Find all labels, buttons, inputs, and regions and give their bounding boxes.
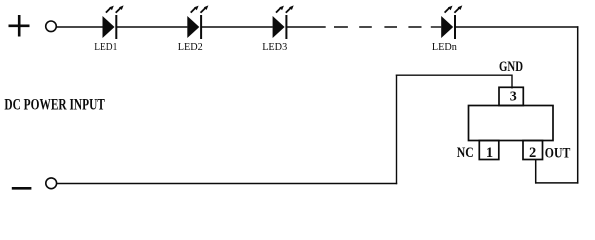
svg-text:NC: NC (457, 145, 474, 161)
wire: + terminal to LED1 anode (56, 26, 102, 28)
wire: LED3 cathode, solid segment before dashed break (287, 26, 326, 28)
plus symbol (+ of DC power input) (9, 15, 30, 37)
LED LEDn (441, 5, 462, 39)
regulator U1 body (469, 106, 554, 141)
pin 2 box (523, 141, 543, 160)
positive terminal circle (46, 21, 57, 32)
dashed wire continuation (omitted LEDs) (334, 26, 422, 28)
pin 3 box (499, 87, 523, 105)
svg-text:LED3: LED3 (262, 41, 287, 53)
wire: GND drop into pin 3 (511, 75, 513, 89)
LED LED2 (187, 5, 208, 39)
svg-text:OUT: OUT (545, 145, 571, 161)
wire: LED2 cathode to LED3 anode (202, 26, 273, 28)
wire: LEDn cathode to top-right corner (456, 26, 579, 28)
wire: riser vertical up (396, 75, 398, 185)
negative terminal circle (46, 178, 57, 189)
svg-text:LED2: LED2 (178, 41, 203, 53)
svg-text:LED1: LED1 (94, 41, 117, 53)
wire: pin 2 stub vertical (535, 159, 537, 184)
wire: bottom-right horizontal to pin 2 stub (535, 182, 578, 184)
wire: horizontal run to GND drop (396, 74, 512, 76)
pin 1 box (479, 141, 499, 160)
wire: - terminal to riser (57, 183, 398, 185)
svg-text:3: 3 (510, 89, 517, 104)
wire: right side vertical drop (577, 26, 579, 183)
minus symbol (- of DC power input) (12, 187, 32, 190)
svg-text:LEDn: LEDn (432, 41, 457, 53)
wire: solid segment to LEDn anode (431, 26, 442, 28)
wire: LED1 cathode to LED2 anode (117, 26, 187, 28)
svg-text:1: 1 (486, 145, 493, 161)
svg-text:GND: GND (499, 59, 523, 75)
LED LED3 (273, 5, 294, 39)
LED LED1 (103, 5, 124, 39)
svg-text:DC POWER INPUT: DC POWER INPUT (4, 97, 105, 114)
svg-text:2: 2 (529, 145, 536, 161)
